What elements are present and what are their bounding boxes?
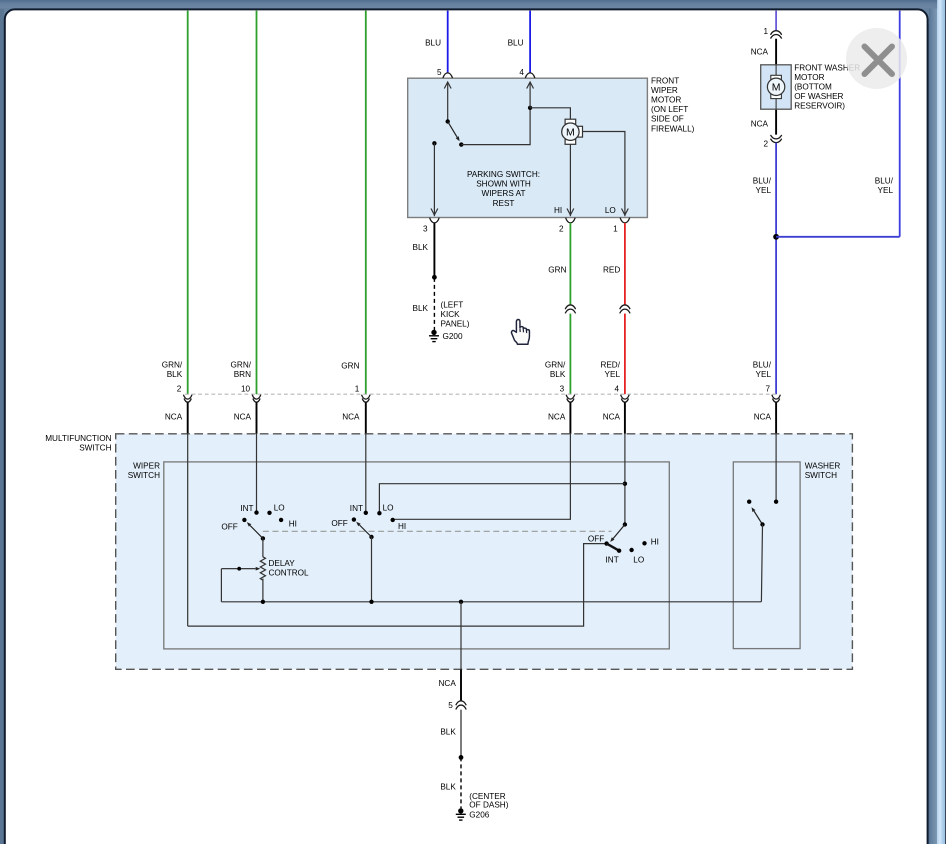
svg-text:YEL: YEL (605, 370, 621, 379)
svg-text:GRN: GRN (341, 361, 359, 370)
svg-text:LO: LO (274, 504, 285, 513)
wire NCA below pin 7 (775, 402, 777, 434)
svg-text:PANEL): PANEL) (441, 320, 470, 329)
wire GRN from pin 2 (569, 223, 571, 305)
svg-text:(CENTER: (CENTER (469, 792, 505, 801)
svg-text:YEL: YEL (878, 186, 894, 195)
svg-text:BLK: BLK (440, 727, 456, 736)
svg-text:MULTIFUNCTION: MULTIFUNCTION (45, 434, 111, 443)
connector row dashed line (185, 393, 779, 395)
wire GRN/BLK vertical (left, circuit 2) (187, 11, 189, 395)
inline connector on RED wire (620, 305, 630, 309)
svg-text:BLK: BLK (413, 243, 429, 252)
front wiper motor box (408, 78, 648, 217)
svg-text:G206: G206 (469, 811, 489, 820)
multifunction switch dashed box (116, 434, 853, 670)
switch SW2 contact dots INT LO HI OFF (364, 511, 368, 515)
svg-text:INT: INT (240, 504, 253, 513)
svg-text:REST: REST (493, 199, 515, 208)
svg-text:(BOTTOM: (BOTTOM (794, 83, 832, 92)
splice dot (432, 275, 437, 280)
svg-text:BLU/: BLU/ (753, 177, 772, 186)
svg-text:3: 3 (423, 225, 428, 234)
svg-text:INT: INT (350, 504, 363, 513)
wire NCA below pin 4 (624, 402, 626, 434)
connector row terminal pin 10 (252, 395, 261, 399)
svg-text:GRN/: GRN/ (162, 360, 183, 369)
svg-text:GRN/: GRN/ (545, 360, 566, 369)
svg-text:7: 7 (765, 385, 770, 394)
svg-text:YEL: YEL (756, 370, 772, 379)
svg-text:3: 3 (560, 385, 565, 394)
washer switch contact dots (774, 500, 778, 504)
switch SW1 contact dots INT LO HI OFF (254, 510, 258, 514)
wire BLK dashed to ground (433, 278, 435, 330)
parking switch blade (448, 122, 458, 138)
svg-text:(LEFT: (LEFT (441, 301, 464, 310)
connector arc pin 4 (525, 73, 535, 78)
svg-text:LO: LO (605, 206, 616, 215)
svg-text:NCA: NCA (751, 119, 769, 128)
svg-text:10: 10 (241, 385, 251, 394)
wire circuit10 inside MFS to INT contact sw1 (256, 433, 258, 511)
wire BLU/YEL right vertical (899, 11, 901, 237)
wiper switch box (164, 462, 670, 649)
svg-text:BLK: BLK (550, 370, 566, 379)
svg-text:BLU/: BLU/ (753, 360, 772, 369)
switch SW3 contact dots INT LO HI (617, 549, 621, 553)
wire wiper return L (220, 569, 222, 602)
svg-text:SWITCH: SWITCH (805, 471, 837, 480)
switch SW3 pivot dot (623, 522, 627, 526)
svg-text:NCA: NCA (751, 48, 769, 57)
ground rail wire (221, 601, 761, 603)
svg-text:RED: RED (603, 266, 620, 275)
junction dot BLU/YEL (773, 234, 779, 240)
svg-text:WASHER: WASHER (805, 462, 841, 471)
svg-text:G200: G200 (443, 332, 463, 341)
svg-text:RESERVOIR): RESERVOIR) (794, 102, 845, 111)
svg-text:LO: LO (633, 555, 644, 564)
front washer motor box (761, 65, 792, 109)
svg-text:2: 2 (763, 139, 768, 148)
washer motor M symbol (775, 65, 777, 76)
svg-text:2: 2 (177, 385, 182, 394)
potentiometer wiper arrow (221, 568, 255, 570)
svg-text:SWITCH: SWITCH (128, 471, 160, 480)
svg-text:PARKING SWITCH:: PARKING SWITCH: (467, 170, 540, 179)
svg-text:SWITCH: SWITCH (79, 444, 111, 453)
wire NCA below pin 10 (256, 402, 258, 434)
wire pin4 internal with up arrow (529, 82, 531, 108)
delay control resistor R1 (260, 557, 265, 580)
connector arc pin 5 (443, 73, 453, 78)
switch SW2 pivot dot (369, 535, 373, 539)
svg-text:BLU: BLU (508, 38, 524, 47)
svg-text:5: 5 (437, 68, 442, 77)
svg-text:WIPER: WIPER (651, 86, 678, 95)
svg-text:LO: LO (383, 504, 394, 513)
washer switch pivot dot (760, 522, 764, 526)
node dot pin4 branch (528, 106, 532, 110)
svg-text:OFF: OFF (588, 534, 604, 543)
svg-text:M: M (772, 82, 781, 94)
wire GRN lower segment (569, 314, 571, 395)
splice dot bottom (459, 755, 464, 760)
svg-text:YEL: YEL (756, 186, 772, 195)
parking switch run contact dot (459, 142, 463, 146)
wire BLK from pin 3 (433, 223, 435, 277)
switch SW1 blade arrow to OFF (250, 525, 263, 538)
connector row terminal pin 3 (566, 395, 575, 399)
svg-text:HI: HI (289, 519, 297, 528)
washer switch box (733, 462, 800, 649)
svg-text:BLU: BLU (425, 38, 441, 47)
wire RED lower segment (624, 314, 626, 395)
svg-text:NCA: NCA (165, 413, 183, 422)
svg-text:5: 5 (448, 701, 453, 710)
junction dot circuit4 branch (623, 482, 627, 486)
svg-text:FRONT: FRONT (651, 76, 679, 85)
svg-text:DELAY: DELAY (269, 559, 296, 568)
switch SW2 blade arrow to OFF (360, 525, 372, 537)
svg-text:OFF: OFF (221, 522, 237, 531)
svg-text:4: 4 (519, 68, 524, 77)
switch SW3 blade arrow to OFF (613, 525, 625, 539)
window right edge (944, 0, 946, 844)
svg-text:BRN: BRN (234, 370, 251, 379)
svg-text:CONTROL: CONTROL (269, 569, 309, 578)
svg-text:KICK: KICK (441, 310, 461, 319)
wire GRN vertical (circuit 1) (365, 11, 367, 395)
wire circuit2 inside MFS (187, 433, 189, 626)
svg-text:NCA: NCA (754, 413, 772, 422)
wire RED from pin 1 (624, 223, 626, 305)
svg-text:NCA: NCA (342, 413, 360, 422)
switch SW3 OFF dot and bridge to INT (604, 541, 608, 545)
wire NCA below pin 2 (187, 402, 189, 434)
wire circuit4 inside MFS to dimmer common (624, 433, 626, 525)
wire NCA below pin 1 (365, 402, 367, 434)
close button (846, 28, 907, 89)
svg-text:OF DASH): OF DASH) (469, 801, 508, 810)
rail junction dots (261, 600, 265, 604)
parking switch park contact dot (432, 141, 436, 145)
svg-text:SHOWN WITH: SHOWN WITH (476, 180, 531, 189)
wire run contact to pin4 node (461, 108, 530, 145)
connector arcs pin 5 bottom (456, 701, 466, 705)
connector row terminal pin 4 (621, 395, 630, 399)
wire circuit7 inside MFS to washer contact (775, 433, 777, 500)
wire motor right to pin 1 LO with down arrow (583, 132, 625, 217)
svg-text:BLK: BLK (440, 783, 456, 792)
wire branch to LO contact sw2 (379, 484, 625, 512)
svg-text:HI: HI (651, 537, 659, 546)
wire NCA output down from rail (460, 602, 462, 670)
wire BLU/YEL washer pin2 down (775, 143, 777, 394)
ground G200 symbol (431, 330, 436, 335)
svg-text:1: 1 (763, 27, 768, 36)
wire washer pivot to rail (761, 525, 762, 602)
connector arc pin 2 (566, 218, 576, 223)
wire BLU to wiper motor pin 4 (529, 11, 531, 73)
scrollbar track (937, 0, 945, 844)
svg-text:WIPER: WIPER (133, 462, 160, 471)
wire SW1 pivot to delay resistor (262, 538, 264, 557)
inline connector on GRN wire (565, 305, 575, 309)
svg-text:BLK: BLK (413, 304, 429, 313)
wire BLK dashed to G206 (460, 757, 462, 808)
svg-text:MOTOR: MOTOR (651, 96, 681, 105)
top title bar (0, 0, 937, 9)
svg-text:HI: HI (554, 206, 562, 215)
left window strip (0, 8, 4, 844)
connector arcs washer pin 2 (771, 135, 782, 139)
svg-text:NCA: NCA (603, 413, 621, 422)
svg-text:OF WASHER: OF WASHER (794, 92, 843, 101)
svg-text:NCA: NCA (439, 679, 457, 688)
svg-text:1: 1 (355, 385, 360, 394)
wire NCA below pin 3 (569, 402, 571, 434)
wire BLU/YEL jumper horizontal (776, 236, 900, 238)
svg-text:SIDE OF: SIDE OF (651, 115, 684, 124)
svg-text:INT: INT (606, 555, 619, 564)
wire park contact to pin 3 with down arrow (433, 143, 435, 216)
mechanical link dashed line (263, 530, 612, 532)
svg-text:NCA: NCA (234, 413, 252, 422)
wire SW2 pivot to rail (371, 537, 373, 602)
svg-text:MOTOR: MOTOR (794, 73, 824, 82)
svg-text:BLK: BLK (167, 370, 183, 379)
wiper motor M symbol (565, 119, 576, 124)
connector arc pin 3 (430, 218, 440, 223)
svg-text:BLU/: BLU/ (875, 177, 894, 186)
corner background patches (4, 8, 18, 24)
wire resistor bottom to rail (262, 579, 264, 602)
wire pin5 internal with up arrow (447, 82, 449, 121)
wire node to motor top (530, 108, 570, 120)
svg-text:WIPERS AT: WIPERS AT (482, 189, 526, 198)
svg-text:(ON LEFT: (ON LEFT (651, 105, 688, 114)
svg-text:OFF: OFF (331, 519, 347, 528)
wire to washer motor (775, 39, 777, 135)
wire circuit1 inside MFS to INT contact sw2 (365, 433, 367, 511)
parking switch pivot dot (446, 119, 450, 123)
wire BLU/YEL top to washer pin 1 (775, 11, 777, 31)
svg-text:GRN/: GRN/ (231, 360, 252, 369)
washer switch blade arrow (754, 511, 763, 524)
connector arcs washer pin 1 (771, 31, 782, 35)
svg-text:HI: HI (398, 522, 406, 531)
svg-text:2: 2 (559, 225, 564, 234)
connector row terminal pin 1 (362, 395, 371, 399)
switch SW1 pivot dot (261, 536, 265, 540)
svg-text:1: 1 (613, 225, 618, 234)
connector arc pin 1 (620, 218, 630, 223)
svg-text:4: 4 (614, 385, 619, 394)
connector row terminal pin 7 (772, 395, 781, 399)
svg-text:M: M (566, 127, 575, 139)
svg-text:RED/: RED/ (600, 360, 620, 369)
connector row terminal pin 2 (183, 395, 192, 399)
svg-text:FIREWALL): FIREWALL) (651, 124, 695, 133)
svg-text:GRN: GRN (548, 266, 566, 275)
mouse hand cursor (511, 320, 529, 345)
wire GRN/BRN vertical (circuit 10) (256, 11, 258, 395)
wire BLU to wiper motor pin 5 (447, 11, 449, 73)
ground G206 symbol (458, 808, 463, 813)
wire circuit3 inside MFS to HI contact sw2 (395, 433, 571, 519)
wire BLK below connector (460, 710, 462, 758)
svg-text:NCA: NCA (548, 413, 566, 422)
wire motor bottom to pin 2 HI with down arrow (569, 144, 571, 216)
